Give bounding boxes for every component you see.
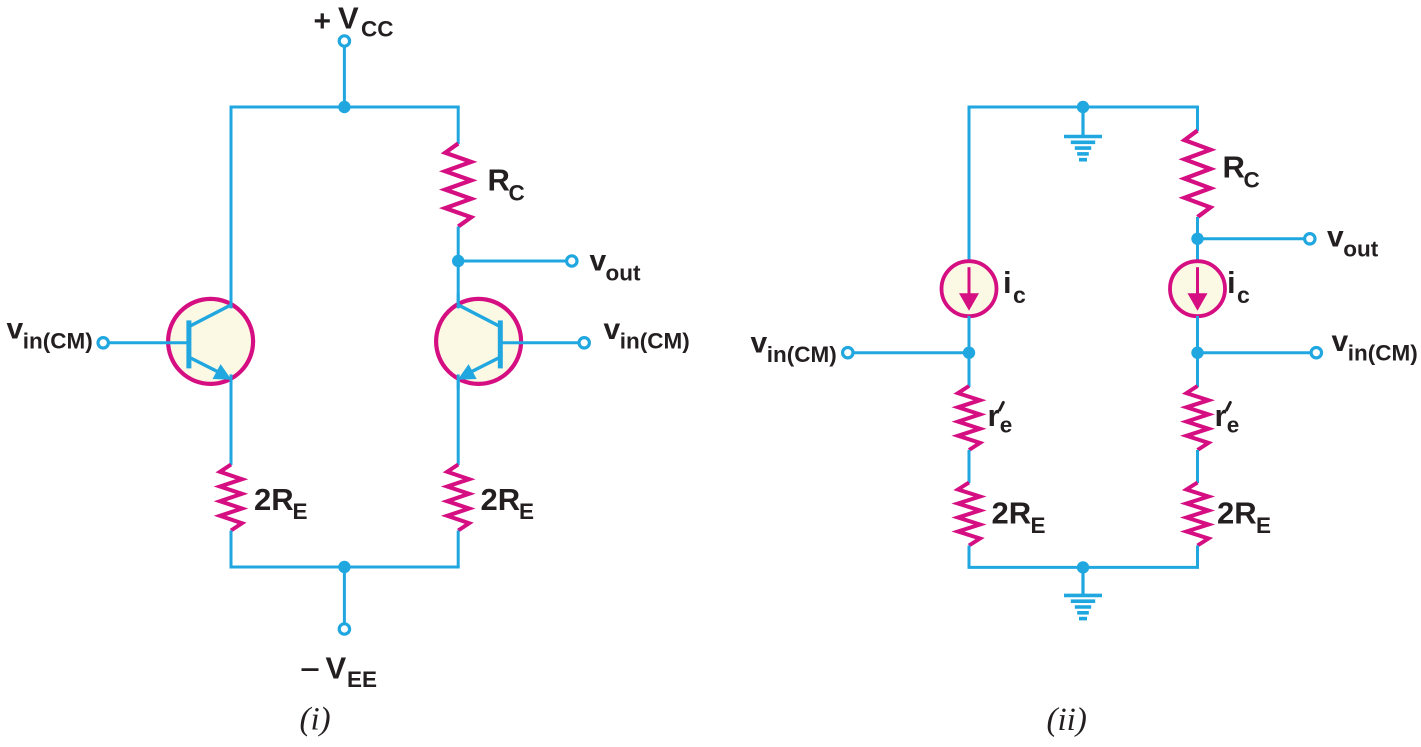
svg-text:+: + (314, 5, 332, 38)
svg-text:E: E (293, 499, 308, 524)
wire 2RE right to bottom rail (457, 531, 460, 568)
svg-text:c: c (1013, 282, 1026, 308)
node vin right (ii) (1191, 347, 1203, 359)
resistor RC (ii) (1185, 131, 1211, 218)
wire vout (i) (458, 260, 566, 263)
wire Q2 emitter to 2RE (457, 380, 460, 466)
ground top (1064, 107, 1102, 160)
svg-text:(ii): (ii) (1047, 702, 1087, 738)
svg-text:2R: 2R (1217, 496, 1257, 531)
svg-text:r: r (988, 398, 1000, 433)
current source ic right (1170, 261, 1225, 316)
wire node to re right (1196, 353, 1199, 387)
current source ic left (942, 261, 997, 316)
label re right (1215, 398, 1240, 438)
label ic left (1003, 265, 1026, 308)
resistor re left (958, 386, 980, 450)
wire VCC terminal to top rail (343, 47, 346, 108)
svg-text:CC: CC (361, 17, 394, 42)
label ic right (1227, 265, 1250, 308)
wire vin left (ii) (853, 351, 969, 354)
label vout (i) (590, 245, 641, 286)
wire RC to vout node (ii) (1196, 217, 1199, 239)
svg-text:EE: EE (347, 667, 377, 692)
ground bottom (1064, 567, 1102, 618)
node vout (ii) (1191, 233, 1203, 245)
svg-text:V: V (326, 651, 347, 686)
svg-text:C: C (1244, 168, 1260, 193)
resistor RC (i) (445, 144, 471, 227)
svg-text:in(CM): in(CM) (767, 342, 837, 367)
wire Q1 emitter to 2RE (230, 380, 233, 466)
terminal vin right (ii) (1311, 348, 1321, 358)
svg-text:E: E (519, 499, 534, 524)
transistor Q2 (436, 293, 521, 389)
label vin(CM) left (ii) (751, 327, 837, 368)
resistor 2RE right (ii) (1187, 483, 1209, 546)
label vout (ii) (1327, 221, 1379, 262)
wire current source right to node (1196, 316, 1199, 353)
label 2RE right (ii) (1217, 496, 1271, 539)
wire vout node to current source (ii) (1196, 239, 1199, 262)
svg-text:in(CM): in(CM) (23, 329, 93, 354)
resistor 2RE left (i) (220, 465, 242, 531)
wire right branch to RC (457, 107, 460, 144)
svg-text:C: C (509, 181, 525, 206)
wire vin right (ii) (1198, 351, 1312, 354)
svg-text:(i): (i) (300, 702, 331, 738)
svg-text:R: R (1223, 150, 1245, 185)
wire 2RE left to bottom rail (230, 531, 233, 568)
wire base Q1 (108, 341, 187, 344)
svg-text:v: v (590, 245, 607, 278)
terminal vout (ii) (1305, 234, 1315, 244)
svg-text:i: i (1227, 265, 1236, 300)
svg-text:in(CM): in(CM) (1348, 341, 1418, 366)
svg-text:2R: 2R (254, 482, 294, 517)
label 2RE left (i) (254, 482, 308, 524)
svg-text:out: out (606, 261, 641, 286)
terminal vin right (i) (579, 338, 589, 348)
label RC (i) (488, 163, 525, 206)
terminal vin left (i) (98, 338, 108, 348)
label vin(CM) right (ii) (1332, 325, 1418, 366)
svg-text:E: E (1256, 513, 1271, 538)
svg-text:i: i (1003, 265, 1012, 300)
resistor re right (1187, 386, 1209, 450)
label re left (988, 398, 1013, 438)
terminal +VCC (339, 36, 349, 46)
svg-text:V: V (338, 1, 359, 36)
label 2RE right (i) (481, 482, 535, 524)
wire bottom rail to VEE terminal (343, 567, 346, 624)
svg-text:v: v (7, 313, 24, 346)
node vout (i) (452, 255, 464, 267)
wire RC to vout node (457, 227, 460, 262)
svg-text:r: r (1215, 398, 1227, 433)
label 2RE left (ii) (992, 496, 1046, 539)
svg-text:v: v (1327, 221, 1344, 254)
svg-text:in(CM): in(CM) (620, 329, 690, 354)
terminal vin left (ii) (843, 348, 853, 358)
resistor 2RE left (ii) (958, 483, 980, 546)
node vin left (ii) (963, 347, 975, 359)
top rail circuit i (230, 106, 460, 109)
node bottom rail junction (338, 561, 350, 573)
svg-text:2R: 2R (992, 496, 1032, 531)
wire current source left to node (968, 316, 971, 353)
node top ground junction (1077, 101, 1089, 113)
label +VCC (314, 1, 394, 42)
wire 2RE right to bottom rail (ii) (1196, 546, 1199, 568)
wire vout (ii) (1198, 237, 1305, 240)
wire base Q2 (502, 341, 579, 344)
label -VEE (302, 651, 378, 693)
terminal -VEE (339, 624, 349, 634)
resistor 2RE right (i) (447, 465, 469, 531)
svg-text:v: v (751, 327, 768, 360)
svg-text:c: c (1237, 282, 1250, 308)
label vin(CM) left (i) (7, 313, 93, 354)
transistor Q1 (168, 293, 253, 389)
node bottom ground junction (1077, 561, 1089, 573)
bottom rail circuit i (230, 566, 460, 569)
wire left branch to current source (968, 107, 971, 262)
label RC (ii) (1223, 150, 1260, 193)
svg-text:v: v (604, 313, 621, 346)
svg-text:e: e (1227, 413, 1240, 438)
label vin(CM) right (i) (604, 313, 690, 354)
wire re right to 2RE (ii) (1196, 450, 1199, 483)
bottom rail circuit ii (968, 566, 1200, 569)
wire right branch to RC (ii) (1196, 107, 1199, 131)
svg-text:v: v (1332, 325, 1349, 358)
wire re left to 2RE (968, 450, 971, 483)
svg-text:out: out (1343, 237, 1378, 262)
svg-text:2R: 2R (481, 482, 521, 517)
svg-text:E: E (1031, 513, 1046, 538)
wire node to re left (968, 353, 971, 387)
wire 2RE left to bottom rail (ii) (968, 546, 971, 568)
svg-text:R: R (488, 163, 510, 198)
top rail circuit ii (968, 106, 1200, 109)
node top rail junction (338, 101, 350, 113)
terminal vout (i) (567, 256, 577, 266)
wire left branch collector Q1 (230, 107, 233, 305)
wire vout node to Q2 collector (457, 261, 460, 305)
svg-text:e: e (1000, 413, 1013, 438)
